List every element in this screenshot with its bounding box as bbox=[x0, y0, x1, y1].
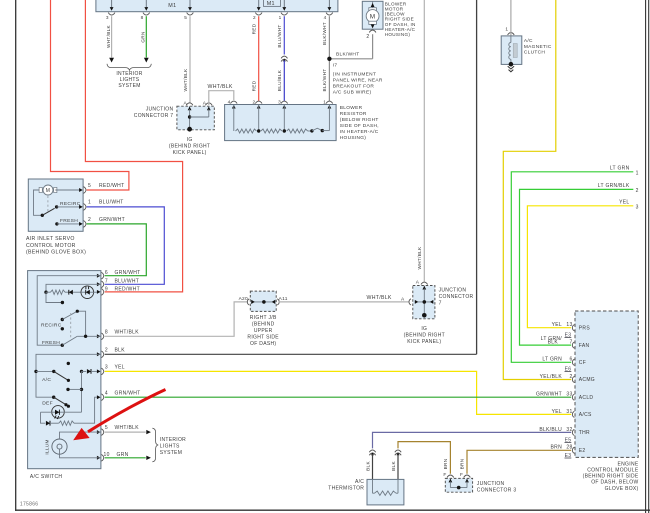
svg-text:INTERIOR: INTERIOR bbox=[116, 71, 142, 77]
A/C control assembly connector bar M1 (cropped at top) bbox=[96, 0, 338, 12]
svg-text:2: 2 bbox=[253, 15, 256, 20]
svg-text:IN HEATER-A/C: IN HEATER-A/C bbox=[340, 129, 379, 135]
A/C switch pole bbox=[36, 370, 54, 372]
switch position dot bbox=[61, 327, 64, 330]
svg-text:7: 7 bbox=[570, 340, 573, 346]
thermal fuse jumper bbox=[308, 130, 312, 132]
svg-text:BLU/BLK: BLU/BLK bbox=[277, 69, 282, 91]
wire GRN/WHT servo pin2 to A/C switch pin6 bbox=[87, 224, 147, 276]
svg-text:A/C SWITCH: A/C SWITCH bbox=[30, 474, 63, 480]
svg-text:HOUSING): HOUSING) bbox=[340, 135, 366, 141]
A/C contact bbox=[67, 362, 70, 365]
svg-text:A/C SUB WIRE): A/C SUB WIRE) bbox=[333, 90, 372, 96]
LED series diode and resistor to pin 4 bbox=[41, 412, 46, 423]
svg-text:5: 5 bbox=[184, 15, 187, 20]
svg-text:CONNECTOR 7: CONNECTOR 7 bbox=[134, 113, 174, 119]
svg-text:RESISTOR: RESISTOR bbox=[340, 111, 367, 117]
A/C switch pin 3 bbox=[97, 369, 101, 373]
vertical rail to LED bbox=[81, 371, 83, 412]
svg-text:M: M bbox=[370, 13, 376, 20]
svg-text:1: 1 bbox=[88, 200, 91, 206]
svg-text:GRN/WHT: GRN/WHT bbox=[99, 217, 125, 223]
svg-text:3: 3 bbox=[636, 205, 639, 211]
svg-text:BLK: BLK bbox=[548, 340, 559, 346]
svg-text:(BEHIND RIGHT: (BEHIND RIGHT bbox=[169, 144, 210, 150]
svg-text:JUNCTION: JUNCTION bbox=[146, 107, 174, 113]
svg-text:2: 2 bbox=[88, 217, 91, 223]
svg-text:BLU/WHT: BLU/WHT bbox=[115, 279, 140, 285]
wire BRN thermistor right lead to junction connector 3 bbox=[398, 442, 450, 474]
wire RED pin2 to blower resistor pin2 bbox=[258, 16, 260, 101]
svg-text:WHT/BLK: WHT/BLK bbox=[115, 425, 140, 431]
A/C switch box bbox=[28, 271, 101, 469]
DEF indicator LED bbox=[52, 406, 65, 419]
svg-text:BLK: BLK bbox=[391, 461, 396, 471]
wire BLK thermistor right lead bbox=[397, 454, 399, 479]
svg-text:M1: M1 bbox=[267, 1, 275, 7]
bar pin 5 bbox=[189, 0, 191, 7]
svg-text:BLK/WHT: BLK/WHT bbox=[322, 22, 327, 45]
svg-text:MAGNETIC: MAGNETIC bbox=[524, 44, 552, 50]
ground symbol below clutch bbox=[508, 66, 514, 69]
bar pin 8 bbox=[145, 0, 147, 7]
wire to A/C magnetic clutch pin 1 bbox=[510, 0, 512, 31]
svg-text:CONNECTOR 3: CONNECTOR 3 bbox=[477, 488, 517, 494]
mechanical link (dashed) bbox=[70, 313, 72, 338]
servo pin 5 bbox=[79, 188, 83, 192]
svg-text:OF DASH, BELOW: OF DASH, BELOW bbox=[591, 480, 638, 486]
svg-text:(BEHIND: (BEHIND bbox=[252, 321, 275, 327]
svg-text:13: 13 bbox=[566, 322, 572, 328]
internal wire from pin 2 (ground rail) bbox=[36, 354, 101, 397]
svg-text:BLU/WHT: BLU/WHT bbox=[99, 200, 124, 206]
pin A left (junction connector 7) bbox=[409, 299, 411, 305]
svg-text:AIR INLET SERVO: AIR INLET SERVO bbox=[26, 236, 75, 242]
svg-text:BLK/WHT: BLK/WHT bbox=[322, 69, 327, 92]
svg-text:LT GRN: LT GRN bbox=[610, 165, 630, 171]
svg-text:KICK PANEL): KICK PANEL) bbox=[407, 339, 441, 345]
wire GRN from pin 10 to interior lights bbox=[105, 457, 146, 459]
wire LT GRN to ECM CF, from page edge node 1 bbox=[511, 172, 633, 362]
svg-text:BRN: BRN bbox=[443, 459, 448, 470]
wire LT GRN/BLK to ECM FAN, from page edge node 2 bbox=[520, 189, 634, 345]
pin F (junction connector 3, right) bbox=[464, 475, 471, 478]
pin A (junction connector 7) bbox=[186, 103, 193, 106]
link bar bbox=[68, 388, 82, 390]
FRESH contact bbox=[55, 222, 58, 225]
A/C thermistor box bbox=[367, 479, 404, 505]
wire WHT/BLK junction connector 7 to blower resistor pin4 bbox=[209, 91, 234, 105]
svg-text:WHT/BLK: WHT/BLK bbox=[208, 84, 233, 90]
svg-text:31: 31 bbox=[566, 409, 572, 415]
resistor element 3 bbox=[287, 129, 308, 133]
svg-text:GRN/WHT: GRN/WHT bbox=[536, 392, 562, 398]
svg-text:175866: 175866 bbox=[20, 502, 39, 508]
svg-text:8: 8 bbox=[141, 15, 144, 20]
svg-text:1: 1 bbox=[636, 171, 639, 177]
wire YEL/BLK from top to ECM ACMG bbox=[503, 0, 571, 380]
wire BLK/WHT from I7 to blower motor pin2 bbox=[329, 58, 372, 60]
svg-text:RIGHT SIDE: RIGHT SIDE bbox=[247, 334, 279, 340]
blower resistor pin 3 bbox=[281, 101, 288, 104]
junction connector 7 (at IG, kick panel) bbox=[413, 286, 435, 319]
svg-text:7: 7 bbox=[439, 301, 442, 307]
svg-text:PANEL WIRE, NEAR: PANEL WIRE, NEAR bbox=[333, 77, 383, 83]
svg-text:2: 2 bbox=[570, 374, 573, 380]
svg-text:WHT/BLK: WHT/BLK bbox=[183, 68, 188, 92]
internal diode bbox=[69, 290, 73, 295]
wire WHT/BLK pin3 to interior lights bbox=[111, 16, 113, 57]
connector label M1 (boxed) bbox=[264, 0, 281, 6]
svg-text:2: 2 bbox=[366, 34, 369, 40]
svg-text:2: 2 bbox=[105, 347, 108, 353]
wire YEL from pin 3 to ECM A/CS bbox=[105, 371, 572, 414]
svg-text:PRS: PRS bbox=[579, 325, 591, 331]
svg-text:IG: IG bbox=[187, 137, 193, 143]
svg-text:JUNCTION: JUNCTION bbox=[477, 481, 505, 487]
svg-text:KICK PANEL): KICK PANEL) bbox=[173, 150, 207, 156]
A/C switch pin 8 bbox=[97, 334, 101, 338]
pin A top (junction connector 7) bbox=[421, 282, 428, 285]
mechanical link (dashed) bbox=[47, 196, 49, 213]
svg-text:M: M bbox=[46, 188, 50, 194]
svg-text:2: 2 bbox=[253, 99, 256, 105]
blower resistor box bbox=[225, 105, 337, 141]
svg-text:SYSTEM: SYSTEM bbox=[118, 83, 140, 89]
internal resistor bbox=[44, 291, 47, 294]
A/C switch pin 5 bbox=[97, 430, 101, 434]
svg-text:3: 3 bbox=[105, 365, 108, 371]
A/C switch pin 9 bbox=[97, 290, 101, 294]
svg-text:RECIRC: RECIRC bbox=[41, 322, 62, 328]
svg-text:LIGHTS: LIGHTS bbox=[160, 444, 180, 450]
svg-text:5: 5 bbox=[105, 425, 108, 431]
svg-text:CONTROL MODULE: CONTROL MODULE bbox=[587, 468, 639, 474]
ECM pin A/CS (31) bbox=[572, 411, 574, 417]
wire WHT/BLK pin 8 to right J/B A20 bbox=[105, 302, 248, 336]
svg-text:(BELOW RIGHT: (BELOW RIGHT bbox=[340, 117, 379, 123]
pin A11 bbox=[272, 300, 276, 304]
svg-text:OF DASH): OF DASH) bbox=[250, 341, 276, 347]
svg-text:BLU/WHT: BLU/WHT bbox=[277, 24, 282, 47]
ECM pin E2 (28) bbox=[572, 447, 574, 453]
wire YEL to ECM PRS, from page edge node 3 bbox=[527, 206, 633, 328]
wire BLK/WHT pin4 to I7 and blower resistor pin1 bbox=[328, 16, 330, 101]
wire GRN pin8 to interior lights bbox=[145, 16, 147, 57]
svg-text:WHT/BLK: WHT/BLK bbox=[115, 329, 140, 335]
svg-text:INTERIOR: INTERIOR bbox=[160, 437, 186, 443]
svg-text:F: F bbox=[443, 472, 446, 478]
svg-text:A11: A11 bbox=[279, 296, 288, 302]
svg-text:BREAKOUT FOR: BREAKOUT FOR bbox=[333, 84, 375, 90]
bar pin 2 bbox=[258, 0, 260, 7]
servo switch arm bbox=[42, 208, 54, 215]
svg-text:THR: THR bbox=[579, 430, 590, 436]
svg-text:CONTROL MOTOR: CONTROL MOTOR bbox=[26, 243, 76, 249]
ECM pin CF (6) bbox=[572, 359, 574, 365]
svg-text:(BEHIND RIGHT: (BEHIND RIGHT bbox=[404, 332, 445, 338]
svg-text:GRN: GRN bbox=[117, 452, 129, 458]
svg-text:THERMISTOR: THERMISTOR bbox=[328, 486, 364, 492]
resistor element 1 bbox=[236, 129, 257, 133]
ECM pin THR (32) bbox=[572, 429, 574, 435]
svg-text:3: 3 bbox=[278, 99, 281, 105]
wire BLU/WHT servo pin1 to A/C switch pin7 bbox=[87, 207, 165, 284]
servo pin 2 bbox=[79, 222, 83, 226]
wire RED/WHT to A/C switch pin9 from top bbox=[85, 0, 182, 292]
ILLUM lamp bbox=[52, 439, 67, 454]
engine control module box bbox=[575, 311, 638, 457]
svg-text:WHT/BLK: WHT/BLK bbox=[106, 24, 111, 48]
bar pin 1 bbox=[283, 0, 285, 7]
svg-text:CLUTCH: CLUTCH bbox=[524, 50, 545, 56]
thermistor resistor element bbox=[375, 491, 397, 495]
svg-text:10: 10 bbox=[104, 452, 110, 458]
svg-text:(BEHIND GLOVE BOX): (BEHIND GLOVE BOX) bbox=[26, 249, 86, 255]
ground splice at clutch bbox=[509, 62, 514, 67]
svg-text:FRESH: FRESH bbox=[60, 218, 78, 224]
servo internal wiring bbox=[34, 190, 43, 215]
blower resistor internal chain bbox=[233, 105, 235, 132]
wire to pin 8 bbox=[77, 335, 101, 337]
inline connector on thermistor right lead bbox=[395, 450, 401, 452]
interior lights system brace and label (top) bbox=[107, 64, 151, 70]
internal wire from pin 7 bbox=[46, 284, 101, 292]
A/C switch pin 6 bbox=[97, 274, 101, 278]
svg-text:8: 8 bbox=[105, 329, 108, 335]
svg-text:A/C: A/C bbox=[524, 38, 533, 44]
svg-text:E2: E2 bbox=[579, 448, 586, 454]
splice node bbox=[257, 129, 260, 132]
RECIRC contact and arm bbox=[61, 318, 64, 321]
svg-text:5: 5 bbox=[88, 183, 91, 189]
RECIRC contact bbox=[55, 205, 58, 208]
svg-text:ENGINE: ENGINE bbox=[618, 461, 639, 467]
svg-text:BLK/WHT: BLK/WHT bbox=[336, 52, 359, 58]
servo pin 1 bbox=[79, 205, 83, 209]
svg-text:ACMG: ACMG bbox=[579, 377, 595, 383]
inline connector on thermistor left lead bbox=[369, 450, 375, 452]
wire BLK from pin 2 bbox=[105, 353, 477, 355]
svg-text:CONNECTOR: CONNECTOR bbox=[439, 294, 474, 300]
splice node bbox=[283, 129, 286, 132]
interior lights system brace and label (bottom) bbox=[152, 428, 158, 462]
A/C magnetic clutch bbox=[501, 36, 522, 65]
svg-text:RED: RED bbox=[252, 80, 257, 91]
blower motor pin 2 bbox=[369, 30, 376, 33]
svg-text:ACLD: ACLD bbox=[579, 395, 594, 401]
bar pin 3 bbox=[111, 0, 113, 7]
svg-text:RIGHT J/B: RIGHT J/B bbox=[250, 315, 277, 321]
svg-text:F: F bbox=[460, 472, 463, 478]
svg-text:RED/WHT: RED/WHT bbox=[99, 183, 124, 189]
ECM pin ACMG (2) bbox=[572, 376, 574, 382]
blower resistor pin 2 bbox=[255, 101, 262, 104]
svg-text:GRN/WHT: GRN/WHT bbox=[115, 390, 141, 396]
svg-text:BLOWER: BLOWER bbox=[340, 105, 363, 111]
svg-text:IG: IG bbox=[421, 326, 427, 332]
wire WHT/BLK from top to junction connector 7 (IG) bbox=[423, 0, 425, 282]
svg-text:SYSTEM: SYSTEM bbox=[160, 450, 182, 456]
svg-text:(IN INSTRUMENT: (IN INSTRUMENT bbox=[333, 71, 376, 77]
svg-text:33: 33 bbox=[566, 392, 572, 398]
resistor element 2 bbox=[261, 129, 282, 133]
wire WHT/BLK right J/B A11 to junction connector 7 bbox=[279, 301, 410, 303]
svg-text:UPPER: UPPER bbox=[254, 328, 273, 334]
svg-text:RED: RED bbox=[252, 23, 257, 34]
svg-text:GRN: GRN bbox=[141, 31, 146, 42]
svg-text:YEL/BLK: YEL/BLK bbox=[540, 374, 563, 380]
svg-text:A: A bbox=[184, 100, 188, 106]
svg-text:1: 1 bbox=[323, 99, 326, 105]
svg-text:YEL: YEL bbox=[619, 199, 629, 205]
svg-text:1: 1 bbox=[505, 27, 508, 33]
svg-text:ILLUM: ILLUM bbox=[45, 439, 50, 454]
svg-text:FAN: FAN bbox=[579, 343, 590, 349]
wire BLU/WHT pin1 with inline connector, becomes BLU/BLK bbox=[283, 16, 285, 54]
ECM pin ACLD (33) bbox=[572, 394, 574, 400]
svg-text:JUNCTION: JUNCTION bbox=[439, 288, 467, 294]
blower resistor pin 1 bbox=[326, 101, 333, 104]
A/C switch pin 2 bbox=[97, 352, 101, 356]
svg-text:YEL: YEL bbox=[552, 409, 562, 415]
svg-text:4: 4 bbox=[228, 99, 231, 105]
ILLUM lamp wiring to pins 5 and 10 bbox=[60, 432, 101, 439]
svg-text:A: A bbox=[416, 280, 420, 286]
wire GRN/WHT from pin 4 to ECM ACLD bbox=[105, 396, 572, 398]
svg-text:CF: CF bbox=[579, 360, 586, 366]
red annotation arrow pointing at ILLUM lamp bbox=[88, 390, 166, 432]
svg-text:A: A bbox=[401, 296, 405, 302]
svg-text:9: 9 bbox=[105, 286, 108, 292]
FRESH arm bbox=[62, 336, 77, 345]
svg-text:LT GRN/BLK: LT GRN/BLK bbox=[598, 183, 630, 189]
svg-text:BLK: BLK bbox=[115, 347, 126, 353]
ECM pin FAN (7) bbox=[572, 342, 574, 348]
svg-text:BRN: BRN bbox=[460, 459, 465, 470]
A/C switch pin 7 bbox=[97, 282, 101, 286]
svg-text:A: A bbox=[203, 100, 207, 106]
pin F (junction connector 3, left) bbox=[447, 475, 454, 478]
wire WHT/BLK pin5 to junction connector 7 bbox=[189, 16, 191, 103]
A/C switch pin 10 bbox=[97, 456, 101, 460]
svg-text:3: 3 bbox=[106, 15, 109, 20]
svg-text:SIDE OF DASH,: SIDE OF DASH, bbox=[340, 123, 379, 129]
air inlet servo control motor box bbox=[28, 179, 83, 231]
right J/B (behind upper right side of dash) bbox=[250, 291, 276, 311]
svg-text:HOUSING): HOUSING) bbox=[385, 32, 411, 37]
svg-text:YEL: YEL bbox=[115, 365, 125, 371]
svg-text:2: 2 bbox=[636, 188, 639, 194]
pin A20 bbox=[251, 300, 255, 304]
svg-text:1: 1 bbox=[279, 15, 282, 20]
svg-text:WHT/BLK: WHT/BLK bbox=[417, 246, 422, 270]
ECM pin PRS (13) bbox=[572, 325, 574, 331]
svg-text:LIGHTS: LIGHTS bbox=[120, 77, 140, 83]
svg-text:RED/WHT: RED/WHT bbox=[115, 286, 140, 292]
svg-text:RECIRC: RECIRC bbox=[60, 201, 81, 207]
junction connector 3 bbox=[445, 478, 472, 492]
A/C switch pin 4 bbox=[97, 395, 101, 399]
wire BLK from A/C switch pin2 up to top bbox=[476, 0, 478, 354]
junction connector 7 (IG, behind right kick panel) bbox=[177, 106, 214, 130]
svg-text:A20: A20 bbox=[239, 296, 248, 302]
ground splice IG (second) bbox=[422, 313, 427, 318]
svg-text:M1: M1 bbox=[168, 3, 176, 9]
svg-text:LT GRN: LT GRN bbox=[542, 357, 562, 363]
svg-text:FRESH: FRESH bbox=[42, 340, 60, 346]
splice I7 bbox=[327, 57, 331, 61]
svg-text:A/C: A/C bbox=[42, 377, 51, 383]
servo motor M symbol bbox=[41, 189, 56, 191]
wire BRN junction connector 3 to ECM E2 bbox=[467, 450, 571, 474]
svg-text:I7: I7 bbox=[333, 63, 338, 69]
DEF switch bbox=[52, 396, 55, 399]
svg-text:DEF: DEF bbox=[42, 401, 53, 407]
svg-text:(BEHIND RIGHT SIDE: (BEHIND RIGHT SIDE bbox=[583, 474, 639, 480]
wire WHT/BLK from pin 5 to interior lights bbox=[105, 431, 146, 433]
svg-text:YEL: YEL bbox=[552, 322, 562, 328]
wire RED/WHT servo pin5 from top bbox=[51, 0, 129, 190]
wire BLK/BLU thermistor to ECM THR bbox=[373, 432, 572, 448]
internal wire from pin 6 to FRESH contact bbox=[37, 276, 101, 346]
svg-text:7: 7 bbox=[105, 279, 108, 285]
transistor circle bbox=[81, 286, 94, 299]
svg-text:GRN/WHT: GRN/WHT bbox=[115, 270, 141, 276]
svg-text:BLK: BLK bbox=[365, 461, 370, 471]
svg-text:6: 6 bbox=[105, 270, 108, 276]
blower motor M1 bbox=[362, 1, 383, 29]
svg-text:6: 6 bbox=[570, 357, 573, 363]
blower resistor pin 4 bbox=[231, 101, 238, 104]
bar pin 4 bbox=[328, 0, 330, 7]
svg-text:GLOVE BOX): GLOVE BOX) bbox=[605, 486, 639, 492]
svg-text:4: 4 bbox=[324, 15, 327, 20]
wire to pin 3 with diode bbox=[80, 370, 83, 373]
svg-text:A/CS: A/CS bbox=[579, 412, 592, 418]
ground splice IG bbox=[187, 127, 192, 132]
pin A (junction connector 7, second) bbox=[206, 103, 213, 106]
wire BLK thermistor left lead bbox=[372, 454, 374, 479]
stub to switch section bbox=[46, 292, 62, 302]
svg-text:A/C: A/C bbox=[355, 479, 364, 485]
svg-text:4: 4 bbox=[105, 390, 108, 396]
svg-text:WHT/BLK: WHT/BLK bbox=[367, 295, 392, 301]
